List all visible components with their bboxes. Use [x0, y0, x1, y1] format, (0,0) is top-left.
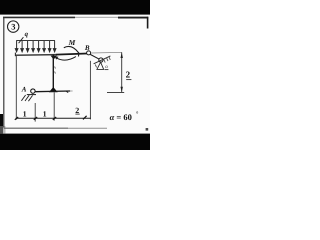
A ground line — [27, 94, 36, 96]
roller circle — [99, 58, 103, 62]
top black scan band — [0, 0, 150, 15]
paper background — [0, 0, 150, 150]
dim serif marks — [15, 116, 87, 120]
distributed load top line — [16, 40, 55, 42]
chord end tick — [66, 91, 68, 92]
frame left line — [3, 17, 5, 128]
extension line from B to right dim — [91, 51, 122, 54]
svg-text:2: 2 — [126, 70, 131, 80]
beam left end cap — [14, 53, 16, 57]
svg-text:M: M — [68, 38, 76, 47]
circled figure number 3 — [8, 21, 19, 32]
frame top line — [3, 16, 75, 18]
moment arc upper — [64, 46, 79, 53]
svg-text:α = 60: α = 60 — [110, 112, 132, 122]
svg-text:1: 1 — [43, 110, 47, 119]
rod B to roller — [90, 54, 99, 59]
svg-text:A: A — [21, 85, 27, 93]
beam-column gusset triangle — [51, 56, 57, 60]
right dim top arrowhead — [121, 53, 123, 58]
extension line under beam left end — [15, 56, 17, 120]
distributed load arrows — [15, 41, 56, 52]
extension tick at A — [34, 103, 36, 122]
moment arc beam crossing stroke — [78, 53, 80, 57]
extension under triangle — [53, 92, 55, 120]
beam (main part to B) — [56, 54, 87, 55]
frame bottom line (left darker) — [4, 127, 68, 129]
support ground dash — [105, 69, 109, 71]
right dim bottom arrowhead — [121, 87, 123, 92]
support hatching — [95, 57, 110, 68]
pin B circle — [87, 51, 91, 55]
right dim underline — [126, 79, 131, 81]
dim label 2 underline — [75, 113, 79, 115]
leader line from q — [19, 37, 24, 43]
pin A circle — [31, 89, 35, 93]
left edge black strip — [0, 114, 3, 134]
bottom dimension line — [16, 117, 91, 119]
svg-text:1: 1 — [23, 110, 27, 119]
member side dashes — [54, 67, 57, 69]
extension under support — [89, 61, 91, 120]
inclined support surface — [94, 56, 111, 64]
beam (left part under load) — [15, 54, 56, 57]
A hatching — [21, 95, 32, 101]
moment arc lower — [56, 57, 76, 61]
moment arrowhead — [55, 56, 59, 59]
lower extension line for right dim — [107, 91, 124, 93]
svg-text:α: α — [105, 65, 108, 70]
right dimension line 2 (vertical) — [121, 52, 123, 92]
frame right line (short, top) — [147, 17, 149, 29]
frame bottom line (right faint) — [68, 127, 107, 129]
lower chord — [35, 90, 70, 93]
svg-text:q: q — [25, 31, 29, 38]
svg-text:2: 2 — [75, 106, 79, 115]
chord gray tail — [70, 90, 72, 92]
vertical member — [52, 55, 54, 89]
bottom black scan band — [0, 134, 150, 150]
roller support triangle — [97, 62, 104, 69]
frame right dot (bottom) — [146, 128, 149, 131]
joint triangle — [49, 87, 58, 92]
svg-text:3: 3 — [11, 22, 15, 32]
